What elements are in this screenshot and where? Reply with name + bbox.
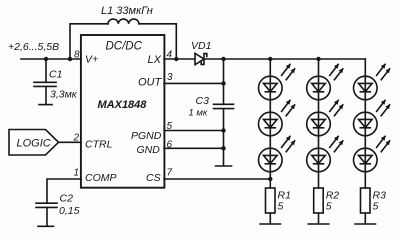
wire column 3 (364, 75, 366, 188)
node PGND junction (221, 128, 225, 132)
svg-text:8: 8 (74, 50, 80, 61)
capacitor C3 (189, 95, 234, 119)
ground R3 (355, 223, 376, 225)
svg-text:3: 3 (167, 72, 173, 83)
IC MAX1848 DC/DC converter (81, 35, 164, 188)
LED HL4 (column 2, row 1) (307, 64, 344, 100)
ground C2 (38, 225, 54, 227)
node C1 junction (44, 57, 48, 61)
svg-text:1: 1 (74, 168, 80, 179)
svg-text:MAX1848: MAX1848 (98, 99, 148, 111)
wire C3 vertical top (223, 59, 225, 104)
LED HL7 (column 3, row 1) (354, 64, 391, 100)
wire C3 vertical bottom (223, 109, 225, 166)
inductor L1 (108, 19, 139, 24)
svg-text:CS: CS (146, 172, 161, 184)
LED HL1 (column 1, row 1) (259, 64, 296, 100)
svg-text:0,15: 0,15 (59, 205, 80, 217)
wire OUT (164, 82, 224, 84)
diode VD1 (191, 40, 211, 65)
ground R2 (308, 223, 329, 225)
LED HL6 (column 2, row 3) (307, 136, 344, 172)
node L1 junction (68, 57, 72, 61)
wire CS (164, 178, 270, 180)
svg-text:OUT: OUT (138, 77, 163, 89)
ground C1 (39, 104, 52, 106)
wire COMP (47, 179, 81, 203)
node LOGIC tag (9, 130, 59, 156)
wire column 1 (269, 59, 271, 188)
svg-text:3,3мк: 3,3мк (50, 89, 78, 101)
node OUT junction (221, 81, 225, 85)
svg-text:5: 5 (278, 201, 284, 213)
LED matrix (259, 64, 391, 172)
svg-text:LX: LX (148, 54, 162, 66)
svg-text:COMP: COMP (85, 172, 117, 184)
LED HL8 (column 3, row 2) (354, 100, 391, 136)
ground C3 (216, 165, 232, 167)
svg-text:1 мк: 1 мк (189, 108, 208, 119)
svg-text:LOGIC: LOGIC (17, 138, 51, 150)
svg-text:VD1: VD1 (191, 40, 211, 52)
wire column 2 (318, 59, 320, 188)
resistor R1 (266, 188, 291, 224)
LED HL2 (column 1, row 2) (259, 100, 296, 136)
ground R1 (260, 223, 281, 225)
svg-text:5: 5 (326, 201, 332, 213)
capacitor C2 (36, 193, 80, 227)
wire L1 left leg (70, 24, 108, 59)
svg-text:7: 7 (167, 168, 173, 179)
svg-text:V+: V+ (85, 54, 98, 66)
wire CTRL (59, 141, 82, 143)
svg-text:+2,6...5,5В: +2,6...5,5В (8, 41, 59, 53)
svg-text:PGND: PGND (131, 130, 162, 142)
wire PGND (164, 130, 224, 132)
node GND junction (221, 146, 225, 150)
node rail col1 (268, 57, 272, 61)
node C3 top junction (221, 57, 225, 61)
resistor R3 (361, 188, 387, 224)
wire input rail (21, 58, 81, 60)
wire L1 right leg (139, 24, 176, 59)
wire col3 corner (364, 59, 366, 75)
svg-text:C3: C3 (196, 95, 210, 107)
node CS junction (268, 177, 272, 181)
node rail col2 (316, 57, 320, 61)
svg-text:CTRL: CTRL (85, 139, 113, 151)
svg-text:C1: C1 (49, 69, 62, 81)
wire GND (164, 147, 224, 149)
wire diode to rail end (204, 58, 365, 60)
node LX junction (174, 57, 178, 61)
capacitor C1 (34, 59, 78, 104)
svg-text:L1 33мкГн: L1 33мкГн (101, 5, 153, 17)
svg-text:C2: C2 (60, 193, 74, 205)
wire LX to diode (164, 58, 195, 60)
svg-text:GND: GND (137, 144, 161, 156)
LED HL5 (column 2, row 2) (307, 100, 344, 136)
LED HL3 (column 1, row 3) (259, 136, 296, 172)
svg-text:5: 5 (373, 201, 379, 213)
LED HL9 (column 3, row 3) (354, 136, 391, 172)
resistor R2 (314, 188, 340, 224)
svg-text:DC/DC: DC/DC (106, 41, 143, 53)
